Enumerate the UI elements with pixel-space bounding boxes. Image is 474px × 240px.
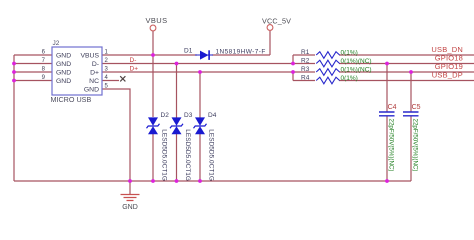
svg-text:NC: NC [89,78,99,85]
svg-text:MICRO USB: MICRO USB [51,95,92,104]
svg-text:D3: D3 [184,112,193,119]
ground [121,181,140,211]
capacitor C5 [403,104,421,172]
wire pin5 GND down [102,89,130,181]
wire pin1 row to diode and VCC riser [102,31,270,55]
svg-text:GND: GND [56,61,71,68]
resistor R1 [301,49,358,58]
svg-text:R4: R4 [301,75,310,82]
ground bars [121,195,140,201]
svg-text:GND: GND [56,53,71,60]
svg-text:0(1%): 0(1%) [341,49,358,56]
svg-text:22pF/50V(5%)(NC): 22pF/50V(5%)(NC) [412,119,419,172]
svg-text:0(1%)(NC): 0(1%)(NC) [341,58,372,65]
svg-text:D1: D1 [184,48,193,55]
svg-text:D+: D+ [130,66,139,73]
wire pins 6-9 to bus [14,55,52,81]
svg-text:J2: J2 [53,40,60,47]
capacitor C4 [379,104,397,172]
svg-text:VCC_5V: VCC_5V [262,17,291,26]
wire resistor join verticals [293,55,315,81]
wire C5 column [410,72,412,181]
svg-text:0(1%)(NC): 0(1%)(NC) [341,66,372,73]
port circle [150,25,156,31]
wire pin2 D- row [102,63,315,65]
ground stem [129,181,131,194]
connector body [52,47,102,95]
power port VCC_5V [262,17,291,31]
svg-text:GND: GND [56,70,71,77]
svg-text:C4: C4 [388,104,397,111]
svg-text:LESD5D5.0CT1G: LESD5D5.0CT1G [208,129,215,181]
resistor R3 [301,66,372,75]
svg-text:GND: GND [122,204,138,211]
diode symbol [195,54,213,56]
svg-text:LESD5D5.0CT1G: LESD5D5.0CT1G [161,129,168,181]
svg-text:R3: R3 [301,66,310,73]
svg-text:D4: D4 [208,112,217,119]
svg-text:VBUS: VBUS [80,53,99,60]
wire D2 D3 D4 bottoms [153,64,200,182]
wire pin3 D+ row [102,71,315,73]
diode D1 1N5819HW-7-F [184,48,266,60]
svg-text:D-: D- [130,57,137,64]
power port VBUS [146,16,168,31]
svg-text:GND: GND [56,78,71,85]
resistor R4 [301,75,358,84]
TVS diode D2 LESD5D5.0CT1G [147,112,170,181]
svg-text:LESD5D5.0CT1G: LESD5D5.0CT1G [184,129,191,181]
svg-text:1N5819HW-7-F: 1N5819HW-7-F [216,49,266,56]
wire left bus vertical [13,55,15,181]
TVS diode D3 LESD5D5.0CT1G [170,112,193,181]
wire VBUS riser [152,31,154,117]
svg-text:C5: C5 [412,104,421,111]
svg-text:D2: D2 [161,112,170,119]
wire pin4 stub [102,80,119,82]
TVS diode D4 LESD5D5.0CT1G [194,112,217,181]
svg-text:USB_DP: USB_DP [432,71,463,80]
svg-text:VBUS: VBUS [146,16,168,25]
svg-text:0(1%): 0(1%) [341,75,358,82]
port circle [267,25,273,31]
svg-text:R2: R2 [301,58,310,65]
no-connect X pin 4 [120,76,125,81]
connector J2 MICRO USB [42,40,109,104]
wire bottom ground rail [14,180,411,182]
wire C4 column [386,64,388,182]
svg-text:R1: R1 [301,49,310,56]
resistor R2 [301,58,372,67]
pin numbers 1-9 [42,50,109,90]
pin names GND left [56,53,71,86]
pin names right VBUS D- D+ NC GND [80,53,99,94]
svg-text:22pF/50V(5%)(NC): 22pF/50V(5%)(NC) [388,119,395,172]
wire resistor outputs to right edge [339,55,474,81]
svg-text:D+: D+ [90,70,99,77]
svg-text:GND: GND [84,87,99,94]
svg-text:D-: D- [92,61,99,68]
